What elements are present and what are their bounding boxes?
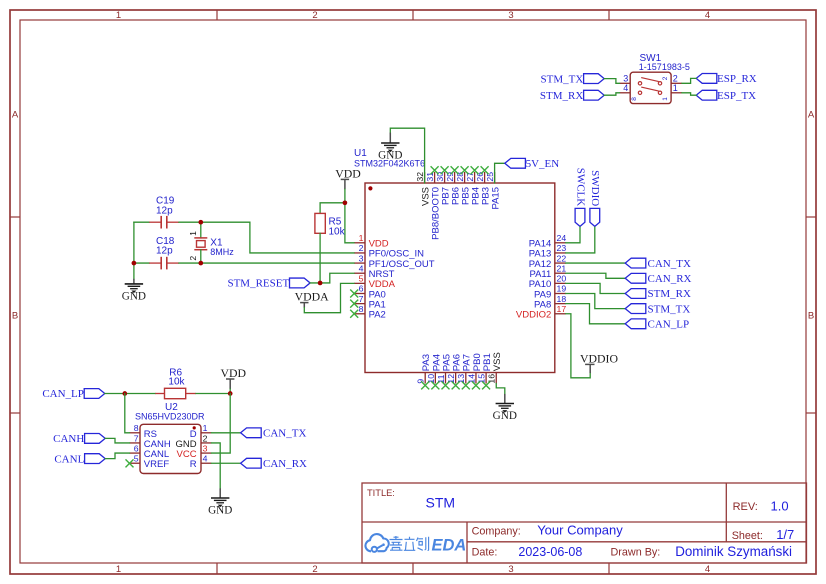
junction node GND rail [132,261,137,266]
wire rail down to ground [133,263,135,279]
U1 pin 16 VSS [487,352,504,383]
wire CAN_LP to R6 [105,393,156,395]
net flag STM_RESET [227,278,310,290]
wire SW1 pin1 to ESP_TX [682,93,696,95]
U1 pin 30 PB7 [435,172,452,205]
wire STM_RESET to NRST pin4 [310,273,354,283]
svg-text:PA15: PA15 [491,187,502,210]
wire VSS pin32 to ground [390,128,424,183]
svg-text:31: 31 [425,172,435,182]
svg-text:22: 22 [557,253,567,263]
net flag STM_TX at SW1 [541,73,605,85]
wire C19 left lead to GND rail [134,221,149,223]
svg-text:3: 3 [359,253,364,263]
U1 pin 15 PB1 [477,353,494,383]
U1 pin 8 PA2 [354,304,386,321]
svg-text:Date:: Date: [472,547,498,559]
no-connect mark U2 pin5 VREF [126,459,134,467]
wire PA11 to CAN_RX [566,273,625,278]
svg-text:7: 7 [359,294,364,304]
U1 pin 19 PA9 [534,284,566,301]
svg-text:B: B [12,311,18,322]
U1 pin 31 PB8/BOOT0 [425,172,442,240]
svg-text:19: 19 [557,284,567,294]
no-connect marks U1 pins 26-31 [431,166,489,174]
wire VSS pin16 to ground [496,384,505,394]
U1 pin 12 PA6 [446,354,463,384]
wire C18 left lead [134,262,149,264]
svg-text:3: 3 [508,564,513,575]
ground GND left of crystal [122,279,146,303]
ground GND below U1 [493,394,517,422]
svg-text:21: 21 [557,263,567,273]
svg-text:11: 11 [436,374,446,383]
svg-text:4: 4 [623,83,628,93]
U1 pin 21 PA11 [529,263,566,280]
svg-text:STM_RX: STM_RX [540,90,583,102]
svg-text:12p: 12p [156,245,173,256]
U1 pin 28 PB5 [455,172,472,205]
svg-text:3: 3 [203,443,208,453]
svg-text:VDD: VDD [221,366,247,380]
svg-text:U1: U1 [354,148,367,159]
svg-text:2: 2 [662,76,669,80]
svg-text:17: 17 [557,304,567,314]
svg-text:GND: GND [493,410,517,422]
svg-text:8MHz: 8MHz [210,247,234,257]
svg-text:5: 5 [359,274,364,284]
svg-text:8: 8 [134,423,139,433]
svg-text:6: 6 [134,443,139,453]
svg-text:20: 20 [557,274,567,284]
svg-text:2: 2 [203,433,208,443]
U1 pin 17 VDDIO2 [516,304,566,321]
net flag 5V_EN [505,158,559,170]
U1 pin 13 PA7 [456,354,473,384]
wire VDD rail to pin1 [345,203,354,243]
svg-text:ESP_TX: ESP_TX [717,90,756,102]
wire PA10 to STM_RX [566,283,625,293]
wire VDDIO2 pin17 to VDDIO [566,314,590,378]
transistor SW1 slide switch 1-1571983-5 [630,53,690,104]
U2 pin 3 VCC [177,443,212,460]
U1 pin 6 PA0 [354,284,386,301]
svg-text:1: 1 [662,97,669,101]
U1 pin 2 PF0/OSC_IN [354,243,424,260]
svg-text:23: 23 [557,243,567,253]
net flag STM_RX at SW1 [540,90,604,102]
wire C18 right to node and PF1/OSC_OUT pin3 [179,262,354,264]
svg-text:26: 26 [475,172,485,182]
U2 pin 4 R [190,454,212,471]
svg-text:16: 16 [487,374,497,384]
svg-text:EDA: EDA [432,536,467,554]
U1 pin 4 NRST [354,263,395,280]
capacitor C19 [149,196,179,229]
wire PA8 to CAN_LP [566,304,625,324]
svg-text:VSS: VSS [492,352,503,371]
power flag VDD near U1 [335,167,361,190]
junction node C18/X1 [198,261,203,266]
U1 pin 24 PA14 [529,233,567,250]
U1 pin 27 PB4 [465,172,482,205]
svg-text:Your Company: Your Company [537,523,623,538]
U2 pin 5 VREF [130,454,170,471]
SW1 pin 3 [620,73,631,83]
svg-text:CAN_TX: CAN_TX [648,258,691,270]
wire CANL to pin6 [105,453,129,459]
svg-text:REV:: REV: [733,501,758,513]
svg-text:4: 4 [705,10,710,21]
U2 pin 7 CANH [130,433,171,450]
U1 pin 7 PA1 [354,294,386,311]
U1 pin 29 PB6 [445,172,462,205]
wire PA9 to STM_TX [566,294,625,309]
ground GND above U1 [378,133,402,162]
svg-text:STM_TX: STM_TX [541,73,584,85]
svg-text:13: 13 [456,374,466,384]
U1 pin 5 VDDA [354,274,396,291]
net flag CAN_TX right [625,258,691,270]
svg-text:8: 8 [359,304,364,314]
op-amp U2 CAN transceiver body [140,424,201,473]
svg-text:12: 12 [446,374,456,384]
svg-text:32: 32 [415,172,425,182]
svg-text:VREF: VREF [144,459,170,470]
wire GND pin2 down [212,443,221,488]
wire SWCLK to PA14 pin24 [566,227,580,243]
svg-text:A: A [12,110,19,121]
junction R5/NRST [318,281,323,286]
svg-text:TITLE:: TITLE: [367,488,395,498]
svg-text:GND: GND [122,291,146,303]
wire VDD junction down to VCC pin3 [212,394,231,454]
svg-text:1-1571983-5: 1-1571983-5 [639,62,690,72]
junction VDD/R5 [343,200,348,205]
svg-text:SN65HVD230DR: SN65HVD230DR [135,412,205,422]
title block [362,483,807,563]
no-connect marks U1 pins 9-15 [421,381,490,389]
wire VDDA to pin5 [304,283,354,312]
svg-text:CANL: CANL [54,453,84,465]
svg-text:4: 4 [203,454,208,464]
net flag ESP_RX [696,73,757,85]
svg-text:GND: GND [378,150,402,162]
svg-text:VDDIO2: VDDIO2 [516,310,551,321]
svg-text:3: 3 [508,10,513,21]
svg-text:CAN_TX: CAN_TX [263,428,306,440]
net flag CANH [53,433,105,445]
svg-text:1: 1 [673,83,678,93]
power flag VDDIO [580,351,618,373]
svg-text:VDDA: VDDA [295,289,330,303]
svg-text:VDDIO: VDDIO [580,351,618,365]
svg-text:Sheet:: Sheet: [732,530,763,542]
net flag CAN_LP right [625,319,689,331]
power flag VDD at R6 [221,366,247,389]
svg-text:29: 29 [445,172,455,182]
U1 pin 11 PA5 [436,354,453,384]
wire STM_TX to SW1 pin3 [604,79,619,84]
svg-text:18: 18 [557,294,567,304]
svg-text:1: 1 [188,231,198,236]
net flag STM_RX right [625,288,691,300]
wire VDD stem to junction [344,189,346,203]
svg-text:1.0: 1.0 [771,498,789,513]
svg-text:GND: GND [208,505,232,517]
svg-text:PA2: PA2 [369,310,386,321]
U1 pin 3 PF1/OSC_OUT [354,253,435,270]
U1 pin 25 PA15 [485,172,502,210]
U1 pin 26 PB3 [475,172,492,205]
net flag CAN_TX at U2 [241,428,307,440]
junction CAN_LP/R6/RS [122,391,127,396]
svg-text:SWCLK: SWCLK [574,168,586,207]
U1 pin 14 PB0 [466,353,483,383]
wire junction to R5 top [320,203,345,214]
svg-text:7: 7 [134,433,139,443]
junction R6/VDD/VCC [228,391,233,396]
U1 pin 22 PA12 [529,253,567,270]
U1 pin 20 PA10 [529,274,567,291]
svg-text:2: 2 [673,73,678,83]
U1 pin 23 PA13 [529,243,567,260]
resistor R5 10k [315,213,346,237]
wire node to PF0/OSC_IN pin2 [201,222,354,253]
U1 pin 10 PA4 [426,354,443,384]
SW1 pin 1 [671,83,682,93]
ground GND below U2 [208,488,232,516]
power flag VDDA [295,289,330,307]
wire junction down to RS pin8 [125,394,130,433]
svg-text:12p: 12p [156,205,173,216]
svg-text:R: R [190,459,197,470]
svg-text:10: 10 [426,374,436,384]
wire R6 right to VDD junction [196,393,230,395]
svg-text:CAN_LP: CAN_LP [42,388,84,400]
svg-text:Company:: Company: [472,525,521,537]
svg-text:CAN_RX: CAN_RX [263,458,307,470]
svg-text:SWDIO: SWDIO [589,170,601,206]
U1 pin 18 PA8 [534,294,566,311]
svg-text:CAN_LP: CAN_LP [648,319,690,331]
no-connect marks U1 pins 6-8 [350,290,358,318]
svg-text:15: 15 [477,374,487,384]
svg-text:STM_TX: STM_TX [648,303,691,315]
svg-text:5: 5 [134,454,139,464]
wire R pin4 to CAN_RX [212,462,241,464]
svg-text:1/7: 1/7 [776,527,794,542]
net flag CAN_RX right [625,273,691,285]
wire PA15 pin25 to 5V_EN [495,163,505,183]
U2 pin 8 RS [130,423,158,440]
wire VDD stem down [229,389,231,394]
svg-text:ESP_RX: ESP_RX [717,73,757,85]
svg-text:4: 4 [705,564,710,575]
wire D pin1 to CAN_TX [212,432,241,434]
U1 pin 32 VSS [415,172,432,206]
svg-text:2: 2 [359,243,364,253]
wire C19 right to node [179,221,201,223]
wire R5 bottom to NRST net [319,233,321,283]
svg-text:9: 9 [416,379,426,384]
resistor R6 10k [155,367,196,398]
svg-text:2: 2 [312,564,317,575]
svg-text:STM: STM [426,495,456,511]
U2 pin 2 GND [175,433,211,450]
U2 pin 1 D [190,423,212,440]
svg-text:Dominik Szymański: Dominik Szymański [675,544,792,559]
svg-text:1: 1 [116,10,121,21]
capacitor C18 [149,236,179,270]
net flag SWCLK [574,168,586,227]
net flag SWDIO [589,170,601,226]
svg-text:Drawn By:: Drawn By: [611,547,661,559]
svg-text:3: 3 [623,73,628,83]
wire PA12 to CAN_TX [566,262,625,264]
net flag STM_TX right [625,303,690,315]
U1 pin 1 VDD [354,233,389,250]
svg-text:24: 24 [557,233,567,243]
svg-text:8: 8 [631,97,638,101]
svg-text:1: 1 [203,423,208,433]
svg-text:STM_RESET: STM_RESET [227,278,289,290]
svg-text:2: 2 [188,256,198,261]
op-amp U1 microcontroller STM32F042K6T6 body [365,183,555,373]
net flag ESP_TX [696,90,756,102]
SW1 contacts [631,76,669,101]
svg-text:CAN_RX: CAN_RX [648,273,692,285]
svg-text:2: 2 [312,10,317,21]
wire SWDIO to PA13 pin23 [566,227,595,253]
wire CANH to pin7 [105,438,129,443]
U2 pin 6 CANL [130,443,170,460]
svg-text:2023-06-08: 2023-06-08 [518,545,582,559]
svg-text:4: 4 [359,263,364,273]
svg-text:14: 14 [466,374,476,384]
svg-text:10k: 10k [329,226,346,237]
net flag CANL [54,453,105,465]
svg-text:A: A [808,110,815,121]
junction node C19/X1 [198,220,203,225]
svg-text:25: 25 [485,172,495,182]
wire left rail C19-C18 [133,222,135,263]
U1 pin 9 PA3 [416,354,433,384]
net flag CAN_RX at U2 [241,458,307,470]
SW1 pin 2 [671,73,682,83]
svg-text:10k: 10k [168,377,185,388]
svg-text:6: 6 [359,284,364,294]
svg-text:CANH: CANH [53,433,84,445]
svg-text:1: 1 [116,564,121,575]
svg-text:30: 30 [435,172,445,182]
wire SW1 pin2 to ESP_RX [682,78,696,83]
JLC EDA logo [365,534,466,554]
crystal X1 8MHz [188,222,234,263]
svg-text:STM_RX: STM_RX [648,288,691,300]
svg-text:B: B [808,311,814,322]
svg-text:5V_EN: 5V_EN [526,158,560,170]
SW1 pin 4 [620,83,631,93]
net flag CAN_LP left [42,388,104,400]
svg-text:1: 1 [359,233,364,243]
svg-text:27: 27 [465,172,475,182]
svg-text:VDD: VDD [335,167,361,181]
svg-text:28: 28 [455,172,465,182]
wire STM_RX to SW1 pin4 [604,93,619,95]
